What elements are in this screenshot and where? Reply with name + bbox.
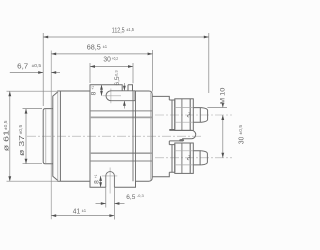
cap <box>152 96 169 176</box>
svg-text:±1: ±1 <box>103 44 108 49</box>
svg-text:ø 61: ø 61 <box>4 130 11 151</box>
centerline main axis <box>27 135 202 137</box>
svg-text:±1,5: ±1,5 <box>126 27 134 32</box>
svg-text:+1: +1 <box>93 174 98 178</box>
centerline top slot crosshair <box>103 89 122 104</box>
svg-text:30: 30 <box>239 137 246 144</box>
dimension 68,5 ±1 <box>51 50 152 219</box>
dimension ø61 ±0,5 <box>7 91 58 181</box>
dimension 41 ±1 <box>51 215 114 217</box>
centerline bottom slot <box>102 168 118 194</box>
front tube (ø37) <box>43 109 53 164</box>
svg-text:+1: +1 <box>90 86 95 90</box>
svg-text:-0,3: -0,3 <box>113 70 118 78</box>
dimension ø37 ±0,5 <box>23 109 43 164</box>
bottom mounting slot <box>106 172 115 188</box>
svg-text:6,5: 6,5 <box>126 194 135 201</box>
svg-text:±0,5: ±0,5 <box>3 120 8 130</box>
dimension 8 +1 (bottom slot) <box>100 176 102 187</box>
dimension 30 +0,2 <box>90 63 133 83</box>
top mounting slot <box>106 91 135 101</box>
flange (ø61) <box>53 91 61 181</box>
svg-text:68,5: 68,5 <box>87 45 101 52</box>
label M10 <box>207 104 227 108</box>
svg-text:±0,5: ±0,5 <box>18 124 23 134</box>
svg-text:6,7: 6,7 <box>17 63 28 70</box>
dimension 6,5 -0,3 (bottom slot) <box>96 187 125 219</box>
svg-text:±0,5: ±0,5 <box>238 124 243 134</box>
can interior seam lines <box>90 111 152 161</box>
can body outline <box>57 85 152 188</box>
dimension 6,5 -0,3 (top slot) <box>123 83 125 109</box>
terminal strap <box>169 130 195 141</box>
svg-text:ø 37: ø 37 <box>19 135 26 156</box>
svg-text:8: 8 <box>94 180 101 184</box>
bracket right edge <box>133 91 136 181</box>
dimension 8 +1 (top slot) <box>101 85 103 96</box>
svg-text:+0,2: +0,2 <box>112 56 119 61</box>
svg-text:41: 41 <box>73 209 80 216</box>
centerline bottom terminal axis <box>155 157 232 159</box>
dimension 112,5 ±1,5 <box>43 33 209 106</box>
svg-text:±0,5: ±0,5 <box>32 63 42 68</box>
centerline top terminal axis <box>155 114 232 116</box>
svg-text:112,5: 112,5 <box>112 27 125 34</box>
svg-text:8: 8 <box>91 91 98 95</box>
svg-text:±1: ±1 <box>82 208 87 213</box>
bottom terminal M10 stud <box>169 143 207 173</box>
svg-text:M 10: M 10 <box>220 87 227 104</box>
strap weld blob <box>179 139 184 141</box>
dimension 6,7 ±0,5 <box>10 72 60 74</box>
svg-text:30: 30 <box>103 56 110 63</box>
dimension 30 ±0,5 (terminals) <box>222 115 224 158</box>
top terminal M10 stud <box>169 99 207 131</box>
svg-text:-0,3: -0,3 <box>137 193 145 198</box>
